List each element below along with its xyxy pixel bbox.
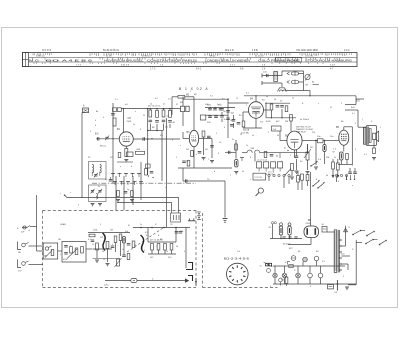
AVC bus wire bbox=[166, 118, 168, 228]
wire anode bbox=[302, 140, 315, 142]
capacitor C6 bbox=[149, 119, 153, 121]
svg-text:470k: 470k bbox=[63, 259, 67, 261]
wire bbox=[182, 97, 184, 107]
svg-text:4 7 1: 4 7 1 bbox=[230, 65, 236, 67]
svg-text:27 1213: 27 1213 bbox=[255, 177, 263, 179]
svg-text:6: 6 bbox=[95, 125, 96, 127]
coupling capacitor C22 bbox=[318, 139, 324, 143]
small box on wire bbox=[146, 164, 151, 168]
svg-text:3: 3 bbox=[355, 149, 356, 151]
svg-text:12V+: 12V+ bbox=[104, 285, 110, 287]
svg-text:1M: 1M bbox=[326, 157, 329, 159]
svg-text:2n: 2n bbox=[163, 104, 165, 106]
mains switch S5b bbox=[365, 243, 367, 245]
svg-text:10n: 10n bbox=[330, 136, 333, 138]
diode load box bbox=[272, 126, 282, 131]
wire avc drop bbox=[161, 131, 163, 182]
parts right of socket bbox=[279, 278, 283, 282]
ground bbox=[91, 203, 95, 205]
svg-text:5k: 5k bbox=[334, 157, 336, 159]
svg-text:60: 60 bbox=[45, 58, 61, 62]
resistor R31 bbox=[117, 191, 120, 197]
ground bbox=[116, 199, 120, 201]
heater rail top bbox=[273, 265, 345, 267]
capacitor C14 bbox=[219, 107, 223, 109]
wire top rail bbox=[172, 96, 178, 98]
svg-text:o: o bbox=[352, 185, 353, 187]
elco C29 bbox=[122, 237, 125, 244]
resistor R22 bbox=[119, 234, 122, 241]
resistor R15 bbox=[346, 154, 349, 160]
mains connector K bbox=[344, 228, 348, 232]
wire bbox=[228, 102, 249, 104]
svg-text:1: 1 bbox=[246, 105, 247, 107]
capacitor C28 pair bbox=[175, 231, 179, 233]
tube socket circle bbox=[227, 263, 249, 285]
wire taps bbox=[342, 245, 346, 247]
capacitor C32 bbox=[228, 151, 230, 154]
rail bbox=[88, 232, 130, 234]
svg-text:1M: 1M bbox=[110, 230, 113, 232]
wire screen bbox=[351, 127, 353, 166]
svg-text:6 0: 6 0 bbox=[155, 98, 158, 100]
svg-text:L: L bbox=[380, 127, 381, 129]
resistor R8 top bbox=[178, 96, 185, 99]
terminal arrows bbox=[346, 175, 348, 179]
trimmer C36 bbox=[91, 190, 94, 192]
ground bbox=[345, 286, 349, 288]
aerial coil box upper bbox=[89, 162, 107, 180]
dial scale left end cap bbox=[23, 53, 29, 67]
rectifier B+ riser wire bbox=[310, 172, 312, 226]
wire bbox=[304, 90, 311, 92]
switch strip rects bbox=[257, 162, 262, 168]
input jack 3 bbox=[18, 260, 22, 268]
svg-text:GRAM: GRAM bbox=[60, 223, 66, 226]
cluster right of bandswitch bbox=[145, 169, 148, 176]
svg-text:OO: OO bbox=[128, 118, 132, 120]
svg-text:5: 5 bbox=[290, 155, 291, 157]
ground bbox=[295, 170, 299, 172]
rail bbox=[133, 227, 190, 229]
dial boxed legend bbox=[276, 58, 302, 62]
dumbbell coil upper bbox=[292, 72, 299, 75]
svg-text:1k: 1k bbox=[224, 119, 226, 121]
svg-text:1n: 1n bbox=[133, 124, 135, 126]
svg-text:2n: 2n bbox=[232, 139, 234, 141]
svg-text:50: 50 bbox=[176, 246, 178, 248]
wire bbox=[356, 242, 362, 244]
pilot lamp L2 bbox=[296, 273, 301, 278]
wire bbox=[243, 111, 249, 113]
svg-text:31 25 19: 31 25 19 bbox=[255, 56, 264, 58]
wire bbox=[147, 228, 149, 243]
svg-text:1M: 1M bbox=[285, 121, 288, 123]
svg-text:N O O S: N O O S bbox=[42, 49, 51, 52]
contact row bbox=[268, 174, 270, 176]
chassis dash-dot line bbox=[92, 182, 196, 184]
socket pin marks bbox=[236, 265, 238, 267]
svg-text:5k: 5k bbox=[92, 244, 94, 246]
svg-text:4: 4 bbox=[218, 153, 219, 155]
svg-text:9 41 5 8: 9 41 5 8 bbox=[121, 65, 130, 67]
wire bbox=[299, 73, 304, 75]
ground bbox=[95, 259, 99, 261]
wire cathode bbox=[125, 146, 127, 148]
wire bbox=[93, 248, 113, 250]
capacitor C8 bbox=[162, 119, 166, 121]
tuning capacitor C3 bbox=[105, 136, 108, 138]
arrow lower bbox=[287, 81, 290, 84]
svg-text:1k: 1k bbox=[166, 251, 168, 253]
bold arc shield 2 bbox=[141, 235, 145, 253]
resistor R23 bbox=[132, 241, 135, 248]
pot with arrow bbox=[117, 259, 120, 266]
svg-text:2: 2 bbox=[172, 140, 173, 142]
resistor R11 bbox=[270, 104, 273, 110]
capacitor C7 bbox=[155, 120, 159, 122]
wire bbox=[315, 140, 318, 142]
phono magnifier symbol bbox=[258, 188, 263, 193]
svg-text:31 25: 31 25 bbox=[106, 56, 112, 58]
capacitor C39 bbox=[124, 191, 128, 193]
pilot lamp L1 bbox=[282, 273, 287, 278]
feedback wire outer bbox=[67, 198, 179, 213]
antenna terminal box A1 bbox=[83, 108, 89, 113]
svg-text:4x: 4x bbox=[284, 148, 286, 150]
resistor R4 bbox=[149, 110, 152, 117]
wire bbox=[185, 228, 187, 269]
coil L4 bbox=[100, 165, 101, 173]
resistor R18 bbox=[301, 174, 304, 180]
svg-text:1: 1 bbox=[230, 175, 231, 177]
extra IF column bbox=[220, 108, 224, 110]
resistor R32 bbox=[131, 191, 134, 197]
svg-text:22k: 22k bbox=[312, 132, 315, 134]
svg-text:M.G: M.G bbox=[29, 58, 39, 62]
ground bbox=[124, 159, 128, 161]
svg-text:B.DR 75: B.DR 75 bbox=[266, 174, 274, 176]
input selector box 1 bbox=[43, 243, 58, 259]
capacitor C10 bbox=[207, 135, 211, 137]
arrow upper bbox=[287, 72, 290, 75]
wire bbox=[307, 144, 309, 152]
tube V2 EF41 B3 bbox=[189, 130, 198, 146]
svg-text:2 0 0: 2 0 0 bbox=[344, 49, 350, 52]
capacitor C19 bbox=[230, 124, 234, 126]
volume pot P1 bbox=[306, 152, 309, 160]
resistor R19 bbox=[306, 175, 309, 181]
capacitor C23 bbox=[295, 155, 299, 157]
bottom corner bracket bbox=[186, 263, 193, 270]
wire bbox=[151, 250, 153, 254]
tube V5 EL41 B6 bbox=[339, 130, 349, 145]
oscillator parts below V3 bbox=[232, 119, 236, 121]
phono input connector 1 bbox=[22, 227, 27, 229]
loudspeaker bbox=[373, 133, 376, 139]
resistor R2 cathode bbox=[125, 149, 128, 157]
junction bbox=[337, 283, 339, 285]
junction through partition bbox=[195, 281, 197, 283]
svg-text:2n: 2n bbox=[246, 145, 248, 147]
capacitor C38 bbox=[109, 179, 113, 181]
svg-text:B.02: B.02 bbox=[266, 121, 271, 123]
rail bbox=[148, 241, 176, 243]
svg-text:LONDEN BERLIJN WENEN: LONDEN BERLIJN WENEN bbox=[205, 58, 250, 62]
ground bbox=[202, 157, 206, 159]
svg-text:M E 4 D: M E 4 D bbox=[225, 49, 234, 52]
svg-text:100k: 100k bbox=[93, 230, 97, 232]
svg-text:1: 1 bbox=[208, 159, 209, 161]
svg-text:B5 0.1: B5 0.1 bbox=[100, 146, 107, 148]
svg-text:45: 45 bbox=[242, 171, 244, 173]
aerial coil pair L1 L2 bbox=[113, 108, 117, 112]
svg-text:12: 12 bbox=[236, 98, 238, 100]
wire bbox=[235, 140, 237, 159]
resistor R28 bbox=[235, 144, 238, 150]
wire bbox=[149, 124, 151, 131]
wire verticals bbox=[115, 176, 117, 210]
resistor R29 bbox=[291, 164, 294, 171]
svg-text:(1941): (1941) bbox=[306, 223, 312, 225]
capacitor C20 bbox=[276, 105, 280, 107]
svg-text:5: 5 bbox=[268, 132, 269, 134]
wire top B+ rail bbox=[183, 98, 228, 100]
DIN plug bbox=[171, 213, 181, 222]
transformer taps bbox=[340, 239, 342, 241]
svg-text:50: 50 bbox=[274, 99, 276, 101]
capacitor C15 bbox=[208, 115, 212, 117]
junction dots rails bbox=[150, 108, 151, 109]
fuse box bbox=[328, 285, 334, 289]
svg-text:2x: 2x bbox=[260, 266, 262, 268]
wire bbox=[178, 167, 232, 169]
svg-text:8: 8 bbox=[250, 157, 251, 159]
svg-text:B 3 6 12 B 3 25 31 41 49: B 3 6 12 B 3 25 31 41 49 bbox=[277, 60, 298, 62]
wire bbox=[310, 238, 312, 245]
capacitor C12 bbox=[208, 107, 212, 109]
parts under AF line bbox=[240, 157, 244, 159]
box tone switch bbox=[253, 173, 266, 180]
resistor R30 bbox=[264, 152, 267, 158]
capacitor C18 bbox=[226, 117, 230, 119]
svg-text:50 45 40: 50 45 40 bbox=[36, 56, 45, 58]
wire bbox=[199, 138, 212, 140]
parts in box2 bbox=[64, 245, 68, 247]
wire bbox=[291, 171, 293, 177]
tube V1 triode-hexode B1 bbox=[119, 132, 133, 146]
svg-text:S 2: S 2 bbox=[210, 96, 213, 98]
wire grid bbox=[280, 140, 287, 142]
feedthrough caps on partition bbox=[198, 213, 200, 215]
svg-text:24.5 MC: 24.5 MC bbox=[241, 133, 250, 135]
resistor R12 bbox=[285, 106, 288, 112]
wire bbox=[183, 138, 189, 140]
svg-text:x: x bbox=[318, 103, 319, 105]
resistor row R24-R27 bbox=[151, 244, 154, 251]
wire antenna down bbox=[81, 113, 83, 198]
svg-text:a1 a2 a3 a4: a1 a2 a3 a4 bbox=[257, 160, 267, 162]
resistor R9 right of V2 bbox=[202, 131, 205, 137]
svg-text:B 1 X 02 A: B 1 X 02 A bbox=[179, 87, 209, 91]
svg-text:CONSTANTINOP PARIJS: CONSTANTINOP PARIJS bbox=[147, 58, 197, 62]
wire bbox=[264, 109, 271, 111]
wire bbox=[225, 151, 236, 153]
parts mid bbox=[127, 254, 130, 260]
resistor R17 bbox=[297, 176, 300, 183]
svg-text:2: 2 bbox=[60, 254, 61, 256]
svg-text:10: 10 bbox=[102, 251, 104, 253]
parts top of band bbox=[118, 153, 121, 158]
wire bbox=[327, 231, 334, 233]
svg-text:4n7: 4n7 bbox=[125, 104, 128, 106]
svg-text:B1-2-3-4-5-6: B1-2-3-4-5-6 bbox=[224, 258, 250, 261]
capacitor C5 bbox=[142, 137, 144, 141]
IF can box bbox=[200, 115, 206, 120]
bracket at partition bottom bbox=[188, 276, 193, 282]
svg-text:y: y bbox=[78, 204, 79, 206]
capacitor C4 bbox=[97, 137, 99, 140]
svg-text:1n: 1n bbox=[98, 186, 100, 188]
resistor R14 grid leak bbox=[323, 145, 326, 152]
elco C30 bbox=[280, 223, 283, 226]
bandswitch contact row 1 bbox=[111, 173, 115, 175]
power transformer T1 bbox=[334, 230, 337, 273]
wire stubs bbox=[287, 261, 290, 263]
rect on rail bbox=[289, 265, 293, 268]
coil S1 bbox=[274, 72, 278, 82]
capacitor C25 on AVC wire bbox=[185, 179, 187, 182]
svg-text:2: 2 bbox=[341, 103, 342, 105]
svg-text:0.1: 0.1 bbox=[364, 154, 367, 156]
svg-text:1 7 3: 1 7 3 bbox=[76, 65, 82, 67]
wire bbox=[268, 177, 270, 181]
wire bbox=[255, 118, 257, 128]
switch arm S4 bbox=[312, 185, 313, 186]
svg-text:x: x bbox=[196, 154, 197, 156]
svg-text:4x 150mV: 4x 150mV bbox=[300, 119, 310, 121]
capacitor C2 bbox=[111, 113, 115, 115]
svg-text:x: x bbox=[250, 179, 251, 181]
lamp L4 bbox=[318, 273, 323, 278]
svg-text:9: 9 bbox=[216, 133, 217, 135]
wire to transformer bbox=[356, 98, 364, 100]
wire bbox=[147, 109, 149, 139]
wire bbox=[263, 75, 283, 77]
svg-text:d: d bbox=[214, 171, 215, 173]
terminal circles bbox=[271, 222, 273, 224]
resistor R21 bbox=[114, 236, 117, 243]
ground bbox=[234, 171, 238, 173]
B+ top rail long bbox=[244, 95, 356, 97]
wire bbox=[340, 160, 342, 165]
resistor R3 bbox=[136, 151, 145, 154]
mechanical link dashed diagonal bbox=[127, 228, 163, 252]
aerial coil box lower bbox=[89, 185, 107, 202]
rail bbox=[205, 107, 235, 109]
capacitor C11 bbox=[198, 151, 202, 153]
bandswitch contact row 2 bbox=[113, 181, 117, 183]
svg-text:2: 2 bbox=[144, 250, 145, 252]
output transformer S3 bbox=[366, 126, 376, 146]
svg-text:6: 6 bbox=[338, 181, 339, 183]
elco C31 bbox=[288, 223, 291, 226]
svg-text:1 5: 1 5 bbox=[115, 99, 118, 101]
switch arm bbox=[286, 169, 292, 175]
wire bbox=[58, 250, 62, 252]
svg-text:2: 2 bbox=[190, 91, 191, 93]
svg-text:B3 ZA: B3 ZA bbox=[243, 129, 250, 132]
wire cathode bbox=[343, 145, 345, 151]
svg-text:3: 3 bbox=[90, 131, 91, 133]
dial scale tick marks middle row bbox=[32, 58, 34, 60]
svg-text:4: 4 bbox=[184, 251, 185, 253]
contact circles right bbox=[335, 174, 337, 176]
resistor R5 bbox=[156, 110, 159, 117]
capacitor C21 bbox=[280, 105, 284, 107]
switch on pot bbox=[310, 165, 311, 166]
wire bbox=[123, 243, 125, 255]
svg-text:1M: 1M bbox=[186, 149, 189, 151]
svg-text:5 2 8: 5 2 8 bbox=[330, 65, 336, 67]
mains switch S5a bbox=[352, 234, 354, 236]
rail bbox=[266, 117, 296, 119]
wire bbox=[255, 96, 257, 102]
svg-text:47k: 47k bbox=[160, 135, 163, 137]
trimmer C37 bbox=[98, 190, 101, 192]
wire bbox=[93, 258, 121, 260]
tube V4 EBC41 B5 bbox=[287, 131, 302, 150]
svg-text:4k7 1k 10k 1k: 4k7 1k 10k 1k bbox=[150, 240, 162, 242]
wire grid rail bbox=[112, 103, 114, 183]
resistor R10 bbox=[191, 151, 194, 157]
input jack 2 bbox=[18, 242, 22, 250]
shielded cable arc bbox=[103, 233, 106, 251]
svg-text:110F: 110F bbox=[127, 121, 132, 123]
wire bbox=[301, 180, 303, 190]
wire bbox=[281, 71, 283, 76]
elco C33 bbox=[235, 160, 238, 168]
capacitor C1 bbox=[266, 74, 268, 77]
feedback wire inner bbox=[117, 203, 172, 213]
right top misc parts bbox=[332, 162, 335, 169]
wire top right bbox=[345, 104, 356, 106]
dial scale row lines bbox=[29, 56, 358, 58]
dial scale tick marks upper row bbox=[32, 53, 34, 55]
input selector box 2 bbox=[62, 242, 86, 263]
wire bbox=[147, 139, 149, 175]
heater rail bottom bbox=[273, 283, 356, 285]
wire anode bbox=[133, 138, 180, 140]
pilot lamp L3 bbox=[308, 273, 313, 278]
wire bbox=[315, 141, 317, 166]
ground bbox=[290, 176, 294, 178]
coil L5 bbox=[96, 194, 97, 200]
small parts bbox=[276, 155, 277, 156]
svg-text:4n: 4n bbox=[266, 96, 268, 98]
connector at left end bbox=[65, 196, 67, 198]
cathode elco C24 bbox=[340, 152, 344, 160]
svg-text:27k: 27k bbox=[260, 122, 263, 124]
svg-text:0.1: 0.1 bbox=[352, 113, 355, 115]
capacitor C17 bbox=[226, 110, 230, 112]
svg-text:8: 8 bbox=[140, 129, 141, 131]
svg-text:c: c bbox=[165, 187, 166, 189]
svg-text:A 4 E B 6: A 4 E B 6 bbox=[62, 58, 93, 62]
wire bbox=[30, 226, 37, 228]
pilot lamp L0 bbox=[273, 273, 277, 277]
wire plate top bbox=[343, 127, 345, 130]
